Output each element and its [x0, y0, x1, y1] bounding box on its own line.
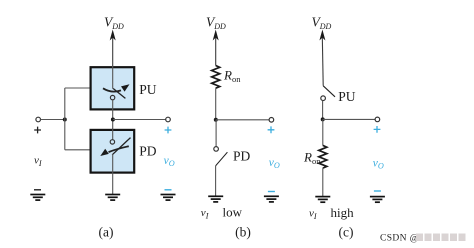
- switch PU contact (c): [321, 96, 326, 101]
- wire control branch vertical (a): [64, 88, 66, 150]
- power VDD arrow (b): [213, 30, 219, 66]
- wire PU to PD through output node (a): [112, 110, 114, 129]
- output terminal (c): [375, 117, 380, 122]
- label minus output (a): [165, 189, 172, 191]
- wire node to output terminal (c): [323, 118, 375, 120]
- svg-text:vO: vO: [164, 155, 175, 168]
- ground output side (b): [264, 196, 279, 202]
- switch PD inside box (a): [100, 129, 130, 173]
- wire resistor to ground (c): [322, 168, 324, 197]
- label minus output (b): [268, 191, 275, 193]
- wire switch to ground (b): [215, 166, 217, 197]
- svg-text:(a): (a): [99, 225, 114, 240]
- wire resistor to node (b): [215, 88, 217, 120]
- wire switch to node (c): [322, 101, 324, 120]
- node output (a): [111, 118, 115, 122]
- svg-text:(c): (c): [339, 225, 354, 240]
- resistor Ron (c): [319, 145, 327, 168]
- svg-text:PU: PU: [338, 89, 356, 104]
- node output (b): [214, 118, 218, 122]
- wire node to switch (b): [215, 120, 217, 147]
- switch box PU (a): [91, 67, 135, 109]
- node output (c): [321, 117, 325, 121]
- wire control branch to PD box (a): [65, 149, 90, 151]
- svg-text:PU: PU: [139, 82, 157, 97]
- label minus input (a): [34, 189, 41, 191]
- svg-text:PD: PD: [233, 149, 251, 164]
- label plus input (a): [34, 127, 41, 134]
- svg-text:(b): (b): [235, 225, 251, 240]
- wire node to output terminal (a): [113, 119, 166, 121]
- svg-text:Ron: Ron: [223, 67, 241, 84]
- svg-text:VDD: VDD: [104, 15, 124, 32]
- label minus output (c): [374, 190, 381, 192]
- switch PU inside box (a): [103, 66, 130, 110]
- svg-text:Ron: Ron: [303, 150, 321, 167]
- switch PD contact (b): [214, 147, 219, 152]
- input terminal (a): [36, 117, 41, 122]
- output terminal (a): [166, 117, 171, 122]
- svg-text:vI: vI: [309, 208, 317, 221]
- power VDD arrow (a): [110, 30, 116, 67]
- wire input terminal to junction (a): [41, 119, 65, 121]
- resistor Ron (b): [212, 66, 220, 89]
- svg-text:vO: vO: [269, 157, 280, 170]
- svg-text:vI: vI: [34, 155, 42, 168]
- power VDD arrow (c): [319, 30, 325, 86]
- output terminal (b): [269, 118, 274, 123]
- svg-text:VDD: VDD: [312, 15, 332, 32]
- label plus output (a): [165, 127, 172, 134]
- svg-text:CSDN @: CSDN @: [380, 234, 419, 244]
- ground output side (a): [161, 195, 176, 201]
- node input junction (a): [63, 118, 67, 122]
- wire node to resistor (c): [322, 119, 324, 145]
- label plus output (c): [374, 126, 381, 133]
- wire node to output terminal (b): [216, 119, 269, 121]
- switch PU blade (c): [323, 86, 335, 97]
- ground input side (b): [208, 196, 223, 202]
- wire control branch to PU box (a): [65, 87, 90, 89]
- svg-text:PD: PD: [139, 144, 157, 159]
- ground input side (c): [315, 197, 330, 203]
- svg-text:VDD: VDD: [206, 15, 226, 32]
- ground input side (a): [30, 195, 45, 201]
- ground center (a): [105, 195, 120, 201]
- svg-text:vI: vI: [201, 207, 209, 220]
- switch PD blade (b): [216, 152, 228, 166]
- svg-text:low: low: [223, 205, 243, 220]
- switch box PD (a): [91, 130, 135, 173]
- wire PD box to ground (a): [112, 173, 114, 195]
- ground output side (c): [370, 197, 385, 203]
- label plus output (b): [268, 126, 275, 133]
- svg-text:vO: vO: [373, 157, 384, 170]
- svg-text:high: high: [331, 205, 355, 220]
- watermark: [380, 234, 466, 244]
